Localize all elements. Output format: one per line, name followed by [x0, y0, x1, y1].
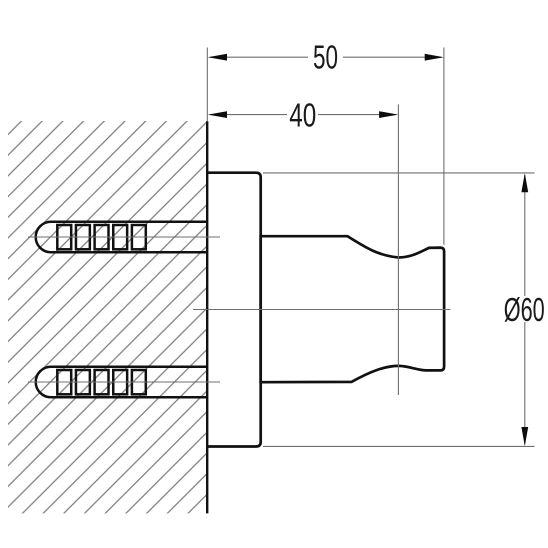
svg-text:40: 40 — [289, 96, 316, 133]
svg-text:50: 50 — [313, 39, 338, 76]
svg-text:Ø60: Ø60 — [504, 291, 545, 328]
